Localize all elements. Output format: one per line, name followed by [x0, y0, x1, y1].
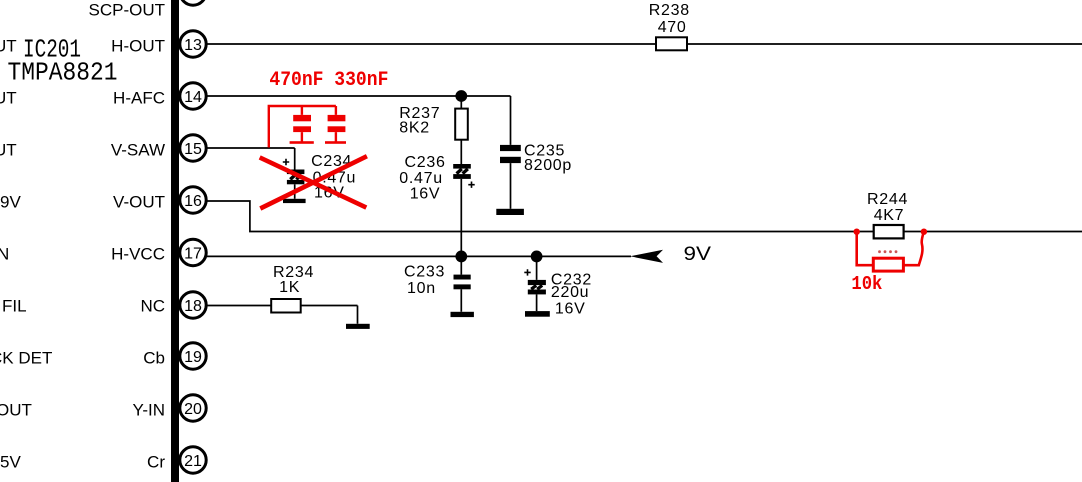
svg-text:OUT: OUT: [0, 401, 32, 420]
pin 17 circle: [180, 239, 206, 265]
svg-text:220u: 220u: [551, 284, 589, 301]
svg-text:1K: 1K: [279, 279, 300, 296]
svg-text:14: 14: [184, 89, 202, 106]
resistor R234: [271, 299, 301, 313]
pin 16 circle: [180, 187, 206, 213]
capacitor C232 electrolytic: [524, 269, 546, 294]
svg-text:CK DET: CK DET: [0, 349, 52, 368]
svg-text:16: 16: [184, 193, 202, 210]
red annotation capacitor B: [325, 106, 346, 144]
svg-text:C233: C233: [404, 264, 445, 281]
svg-text:N: N: [0, 245, 9, 264]
clipped net label 5V (pin21 row): [0, 453, 21, 472]
svg-text:20: 20: [184, 401, 202, 418]
svg-text:470nF 330nF: 470nF 330nF: [269, 69, 388, 92]
node 9V label: [684, 244, 712, 265]
ground C235: [496, 209, 524, 215]
svg-text:17: 17: [184, 245, 202, 262]
clipped net label UT (pin14 row): [0, 89, 17, 108]
wire C235 stem: [510, 163, 512, 209]
svg-text:9V: 9V: [0, 193, 21, 212]
wire C236 to H-VCC rail: [460, 179, 462, 257]
svg-text:Y-IN: Y-IN: [133, 401, 165, 420]
svg-text:13: 13: [184, 37, 202, 54]
svg-text:TMPA8821: TMPA8821: [8, 58, 118, 88]
junction pin14/R237: [455, 90, 467, 102]
wire pin13 to R238 and right edge: [206, 43, 1082, 45]
wire C233 stem: [460, 256, 462, 311]
svg-text:NC: NC: [140, 297, 165, 316]
pin name Y-IN: [133, 401, 165, 420]
red annotation text 470nF 330nF: [269, 69, 388, 92]
pin name Cb: [143, 349, 165, 368]
label R238 value: [649, 2, 690, 36]
red annotation rail wire: [269, 106, 336, 148]
ground C232: [525, 311, 550, 317]
svg-text:UT: UT: [0, 37, 17, 56]
pin 21 circle: [180, 447, 206, 473]
label C235 value: [524, 142, 572, 174]
wire C234 stem: [294, 184, 296, 199]
ground R234: [346, 324, 370, 329]
svg-text:R238: R238: [649, 2, 690, 19]
ground C234: [283, 199, 306, 203]
wire pin18 to R234 and ground: [206, 306, 358, 324]
red annotation capacitor A: [290, 106, 314, 144]
pin name SCP-OUT: [89, 1, 166, 20]
svg-text:0.47u: 0.47u: [399, 170, 443, 187]
ground C233: [451, 312, 474, 317]
clipped net label FIL (pin18 row): [2, 297, 27, 316]
wire pin14 net: [206, 96, 511, 145]
node 9V arrow: [630, 250, 663, 263]
pin name NC: [140, 297, 165, 316]
pin name Cr: [147, 453, 165, 472]
pin name V-OUT: [113, 193, 165, 212]
svg-text:UT: UT: [0, 89, 17, 108]
svg-text:H-VCC: H-VCC: [111, 245, 165, 264]
pin name H-OUT: [111, 37, 165, 56]
red wire parallel resistor right: [903, 232, 924, 266]
svg-text:18: 18: [184, 298, 202, 315]
label C232 value: [551, 271, 592, 317]
junction C232/rail: [531, 251, 543, 263]
svg-text:C236: C236: [405, 154, 446, 171]
resistor R244: [874, 225, 904, 238]
capacitor C234 electrolytic (crossed out): [283, 159, 305, 184]
svg-text:10n: 10n: [407, 280, 436, 297]
clipped net label OUT (pin20 row): [0, 401, 32, 420]
label R244 value: [867, 191, 908, 224]
svg-text:21: 21: [184, 453, 202, 470]
red annotation text 10k: [851, 273, 882, 295]
svg-text:5V: 5V: [0, 453, 21, 472]
svg-text:9V: 9V: [684, 244, 712, 265]
clipped net label CK DET (pin19 row): [0, 349, 52, 368]
label C233 value: [404, 264, 445, 298]
pin 20 circle: [180, 395, 206, 421]
capacitor C235: [500, 145, 521, 163]
pin name V-SAW: [111, 141, 165, 160]
clipped net label N (pin17 row): [0, 245, 9, 264]
IC201 part number TMPA8821: [8, 58, 118, 88]
svg-text:Cb: Cb: [143, 349, 165, 368]
svg-text:UT: UT: [0, 141, 17, 160]
svg-text:16V: 16V: [555, 301, 586, 318]
red junction dot left of R244: [854, 229, 860, 235]
pin 15 circle: [180, 135, 206, 161]
svg-text:V-SAW: V-SAW: [111, 141, 165, 160]
red wire parallel resistor left: [857, 232, 874, 266]
svg-text:4K7: 4K7: [874, 207, 905, 224]
svg-text:V-OUT: V-OUT: [113, 193, 165, 212]
red dotted leader: [878, 250, 897, 253]
pin name H-AFC: [113, 89, 165, 108]
label R234 value: [273, 264, 314, 296]
clipped net label 9V (pin16 row): [0, 193, 21, 212]
svg-text:FIL: FIL: [2, 297, 27, 316]
junction C233/rail: [455, 251, 467, 263]
wire pin17 H-VCC 9V rail: [206, 255, 631, 257]
clipped net label UT (pin13 row): [0, 37, 17, 56]
svg-text:15: 15: [184, 141, 202, 158]
wire R237 vertical branch: [460, 96, 462, 164]
svg-text:16V: 16V: [410, 185, 441, 202]
clipped net label UT (pin15 row): [0, 141, 17, 160]
capacitor C236 electrolytic: [453, 164, 475, 188]
red cross-out X over C234: [260, 156, 367, 208]
label C234 value: [311, 153, 356, 202]
svg-text:10k: 10k: [851, 273, 882, 295]
capacitor C233: [454, 275, 471, 290]
pin 12 circle (partial at top): [180, 0, 206, 5]
svg-text:8K2: 8K2: [399, 120, 430, 137]
resistor R238: [656, 37, 687, 50]
svg-text:19: 19: [184, 349, 202, 366]
pin 19 circle: [180, 343, 206, 369]
IC201 reference: [23, 35, 81, 65]
red junction dot right of R244: [921, 229, 927, 235]
pin 14 circle: [180, 83, 206, 109]
red resistor 10k body: [873, 258, 903, 271]
label R237 value: [399, 105, 440, 137]
pin 13 circle: [180, 31, 206, 57]
wire pin16 V-OUT run to right edge: [206, 201, 1082, 232]
svg-text:SCP-OUT: SCP-OUT: [89, 1, 166, 20]
svg-text:H-OUT: H-OUT: [111, 37, 165, 56]
wire C232 stem: [536, 256, 538, 311]
IC201 body edge bar: [171, 0, 179, 482]
svg-text:Cr: Cr: [147, 453, 165, 472]
svg-text:R244: R244: [867, 191, 908, 208]
pin name H-VCC: [111, 245, 165, 264]
svg-text:8200p: 8200p: [524, 157, 572, 174]
svg-text:H-AFC: H-AFC: [113, 89, 165, 108]
pin 18 circle: [180, 292, 206, 318]
svg-text:470: 470: [658, 19, 687, 36]
label C236 value: [399, 154, 445, 202]
resistor R237: [455, 109, 468, 140]
wire pin15 to C234: [206, 148, 295, 170]
